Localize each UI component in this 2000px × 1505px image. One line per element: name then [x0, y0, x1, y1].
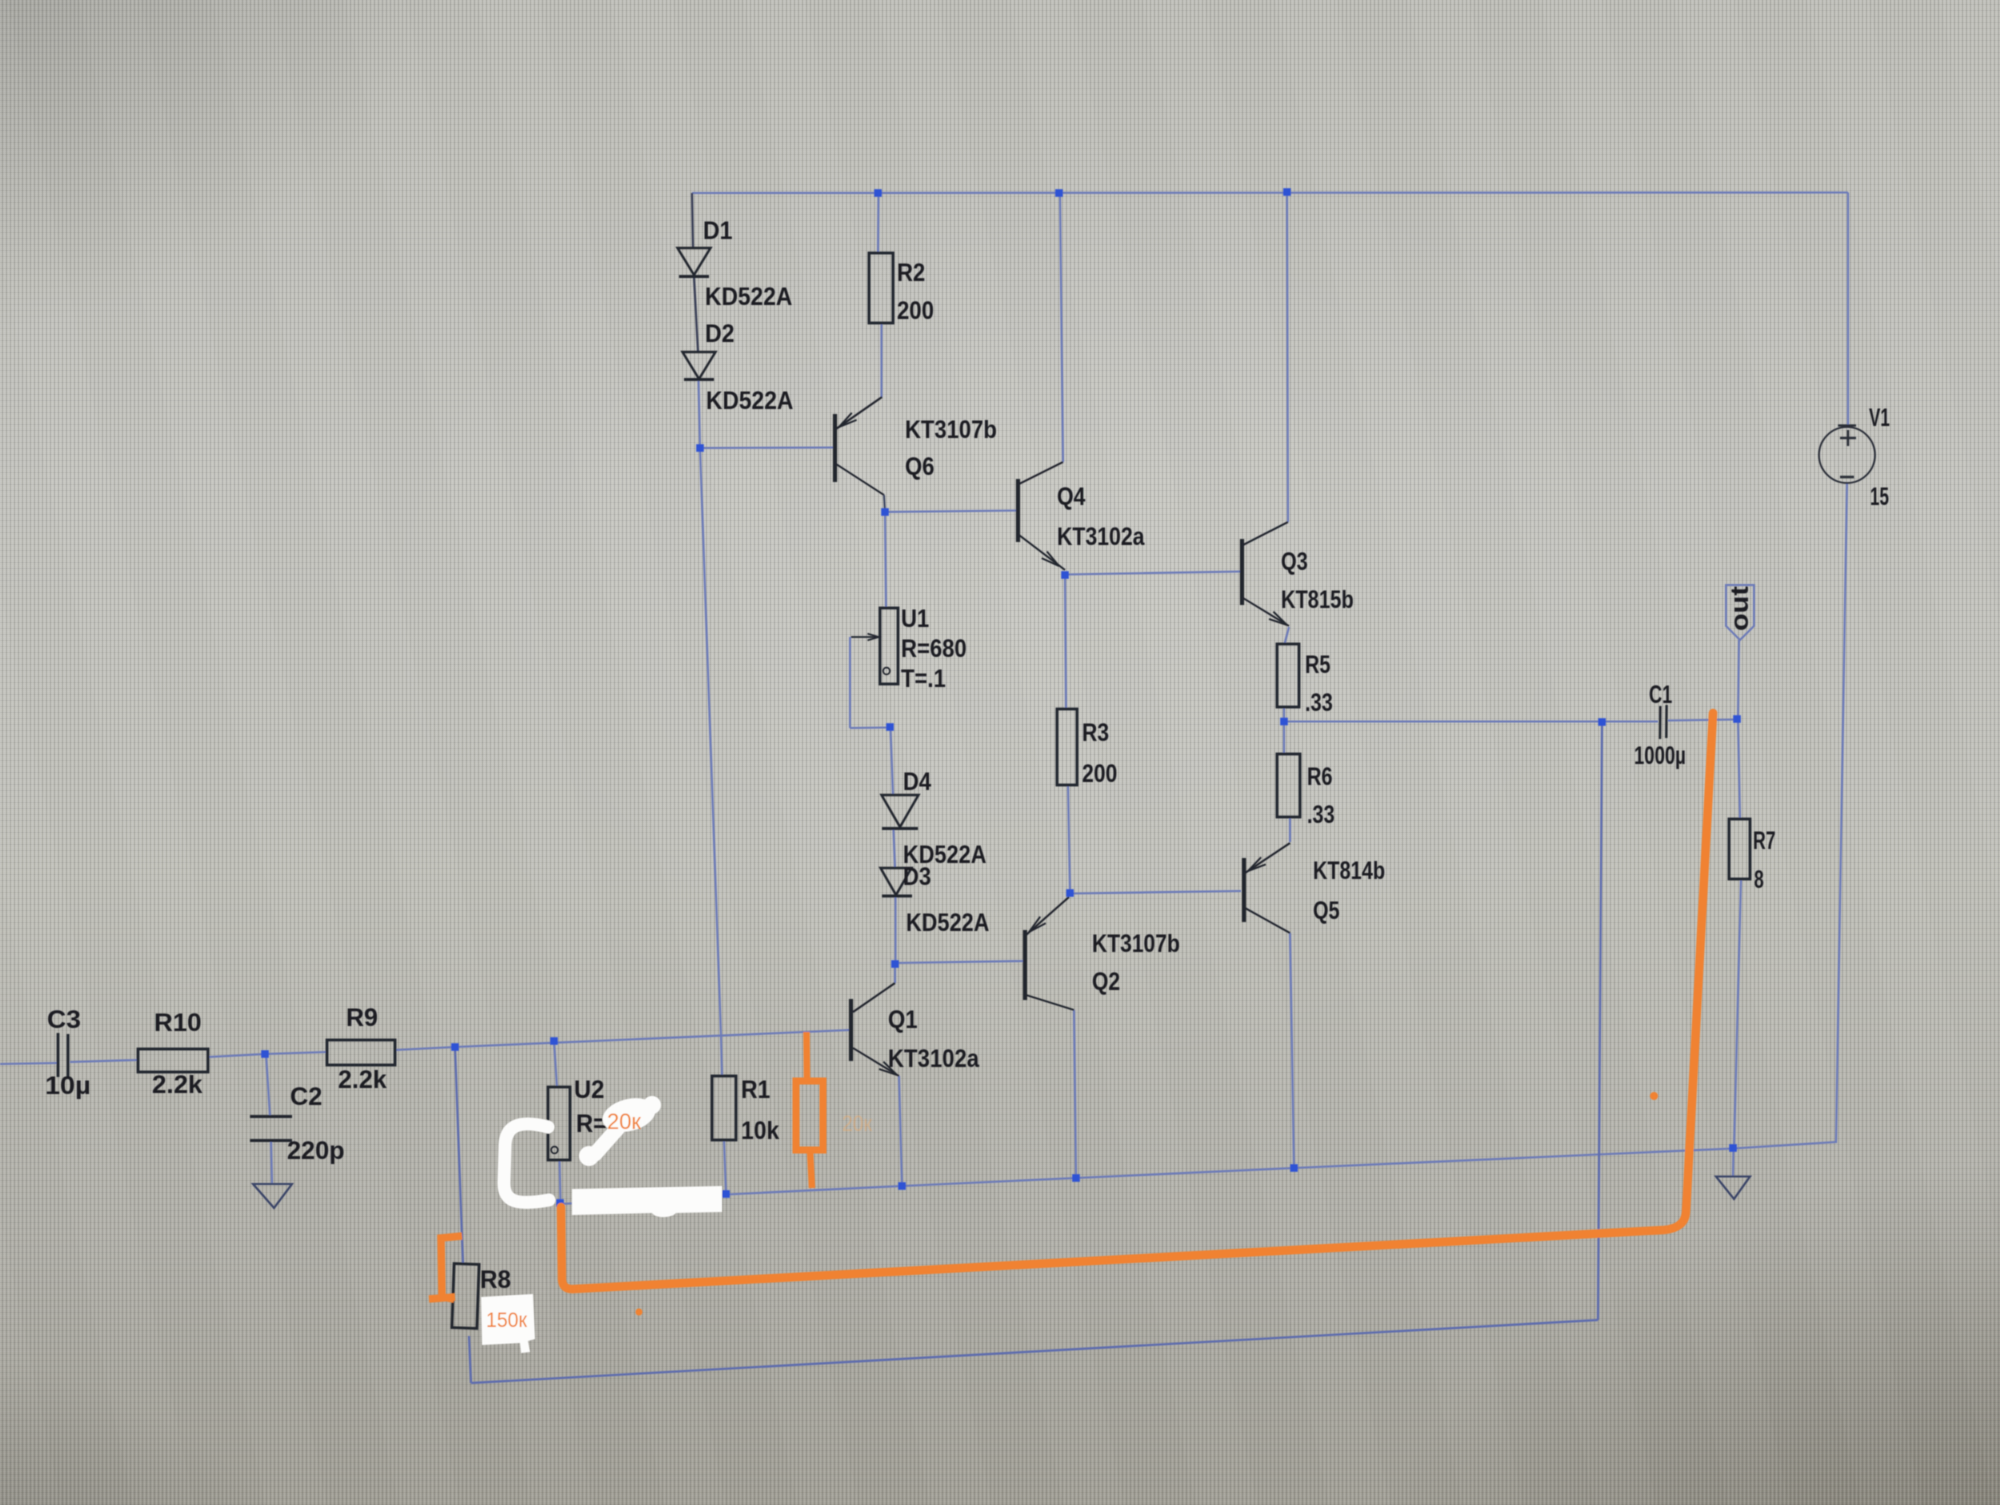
- label C3: [47, 1006, 81, 1034]
- wire Q4 emitter to Q3 base: [1065, 572, 1242, 575]
- wire node to Q5 base: [1070, 891, 1241, 894]
- label R1 value: [741, 1117, 779, 1145]
- resistor R8: [452, 1264, 479, 1329]
- svg-text:C2: C2: [290, 1083, 322, 1111]
- wire Q2 collector drop: [1074, 1010, 1076, 1178]
- wire R6 bottom to Q5 emitter: [1289, 818, 1291, 842]
- svg-text:KD522A: KD522A: [705, 283, 792, 311]
- svg-text:1000µ: 1000µ: [1634, 742, 1686, 770]
- wire R10 to node: [208, 1054, 265, 1057]
- svg-text:D4: D4: [903, 768, 931, 796]
- svg-text:R=680: R=680: [901, 635, 967, 663]
- svg-text:20к: 20к: [607, 1109, 641, 1134]
- wire R2 top lead: [877, 193, 880, 253]
- svg-text:KT3102a: KT3102a: [1057, 523, 1145, 551]
- label R8: [480, 1266, 511, 1294]
- transistor Q4: [1018, 462, 1065, 570]
- svg-text:T=.1: T=.1: [901, 665, 946, 693]
- label Q3: [1281, 548, 1308, 576]
- label R5 value: [1305, 689, 1333, 717]
- label C2: [290, 1083, 322, 1111]
- wire Q3 collector riser: [1287, 193, 1288, 523]
- label D1 value: [705, 283, 792, 311]
- wire out node to R7: [1738, 719, 1740, 819]
- label R6: [1307, 763, 1333, 791]
- diode D4: [882, 795, 919, 829]
- svg-text:C3: C3: [47, 1006, 81, 1034]
- ground at C2: [253, 1184, 292, 1208]
- wire D1-D2 link: [694, 277, 698, 352]
- resistor R10: [138, 1049, 208, 1072]
- capacitor C3: [58, 1033, 68, 1078]
- svg-text:8: 8: [1754, 866, 1764, 894]
- label R7 value: [1754, 866, 1764, 894]
- diode D3: [881, 868, 913, 896]
- wire U1 wiper to node: [850, 727, 890, 730]
- capacitor C1: [1660, 705, 1667, 739]
- label Q6 type: [905, 416, 997, 444]
- svg-text:R=: R=: [576, 1110, 607, 1138]
- white-out blob right of U2: [579, 1093, 661, 1166]
- svg-text:D2: D2: [705, 320, 735, 348]
- wire R1 top lead: [721, 1036, 722, 1076]
- diode D1: [678, 248, 711, 277]
- svg-text:D3: D3: [903, 863, 931, 891]
- transistor Q6: [835, 397, 885, 512]
- wire V1 top lead: [1847, 193, 1849, 427]
- wire D3 to node: [894, 897, 896, 963]
- label D3 value: [906, 909, 989, 937]
- svg-text:R9: R9: [346, 1004, 378, 1032]
- label D3: [903, 863, 931, 891]
- label U1: [901, 605, 929, 633]
- wire node to Q6 base: [700, 446, 835, 449]
- svg-text:D1: D1: [703, 217, 733, 245]
- junction nodes: [261, 188, 1741, 1207]
- label D1: [703, 217, 733, 245]
- svg-text:200: 200: [897, 297, 934, 325]
- svg-text:R6: R6: [1307, 763, 1333, 791]
- wire U1 bottom to D4: [891, 728, 894, 795]
- label R3 value: [1082, 760, 1117, 788]
- svg-text:KT815b: KT815b: [1281, 586, 1354, 614]
- label U2: [574, 1076, 604, 1104]
- wire bottom rail: [560, 1142, 1836, 1204]
- svg-text:KT3102a: KT3102a: [888, 1045, 980, 1073]
- label Q4: [1057, 483, 1085, 511]
- label Q2 type: [1092, 930, 1180, 958]
- transistor Q5: [1244, 843, 1290, 933]
- resistor R1: [712, 1076, 736, 1140]
- wire R9 to node: [395, 1047, 455, 1050]
- label R5: [1305, 651, 1331, 679]
- svg-text:R10: R10: [154, 1009, 202, 1037]
- wire output node to C1: [1284, 720, 1658, 722]
- label C3 value: [45, 1072, 91, 1100]
- ground at output: [1716, 1177, 1750, 1200]
- wire Q1 collector riser: [894, 965, 896, 983]
- wire Q6 collector node down to U1: [885, 512, 886, 608]
- label Q2: [1092, 968, 1120, 996]
- transistor Q3: [1242, 522, 1289, 626]
- wire C2 top lead: [266, 1054, 270, 1116]
- orange dot small: [636, 1309, 643, 1316]
- label Q1 type: [888, 1045, 980, 1073]
- label R6 value: [1307, 801, 1335, 829]
- label R1: [741, 1076, 770, 1104]
- svg-text:R3: R3: [1082, 719, 1109, 747]
- label Q1: [888, 1006, 918, 1034]
- orange text 150k at R8: [486, 1309, 528, 1332]
- wire feedback drop from C1: [1598, 722, 1602, 1320]
- label Q5: [1313, 897, 1340, 925]
- label R7: [1753, 827, 1776, 855]
- label Q3 type: [1281, 586, 1354, 614]
- svg-text:10k: 10k: [741, 1117, 779, 1145]
- svg-text:Q1: Q1: [888, 1006, 918, 1034]
- label R3: [1082, 719, 1109, 747]
- transistor Q2: [1025, 897, 1074, 1010]
- svg-text:U1: U1: [901, 605, 929, 633]
- white-out patch under 150k: [481, 1294, 535, 1353]
- wire node to R9: [265, 1052, 327, 1054]
- orange text 20k at U2: [607, 1109, 641, 1134]
- svg-text:.33: .33: [1307, 801, 1335, 829]
- svg-text:U2: U2: [574, 1076, 604, 1104]
- wire D1 anode lead: [692, 193, 693, 248]
- wire Q6 emitter to R2: [880, 323, 882, 397]
- svg-text:200: 200: [1082, 760, 1117, 788]
- wire Q1 emitter drop: [899, 1076, 902, 1186]
- transistor Q1: [851, 983, 899, 1076]
- label Q5 type: [1313, 857, 1385, 885]
- wire C3 to R10: [70, 1060, 138, 1062]
- svg-text:10µ: 10µ: [45, 1072, 91, 1100]
- svg-text:.33: .33: [1305, 689, 1333, 717]
- orange bracket at R8: [429, 1236, 462, 1299]
- svg-text:2.2k: 2.2k: [152, 1071, 203, 1099]
- svg-text:R5: R5: [1305, 651, 1331, 679]
- svg-text:R2: R2: [897, 259, 925, 287]
- svg-text:V1: V1: [1869, 404, 1890, 432]
- svg-text:20к: 20к: [842, 1111, 872, 1136]
- label C1 value: [1634, 742, 1686, 770]
- label Q6: [905, 453, 934, 481]
- resistor R6: [1277, 754, 1300, 817]
- potentiometer U2: [548, 1087, 570, 1160]
- wire top supply rail: [692, 191, 1848, 194]
- svg-text:R8: R8: [480, 1266, 511, 1294]
- wire U1 wiper vertical: [849, 637, 851, 728]
- wire D2 cathode to node: [699, 380, 701, 448]
- wire node to Q2 base: [895, 961, 1025, 963]
- orange dot near C1: [1650, 1092, 1658, 1100]
- wire C1 to out node: [1668, 720, 1737, 721]
- wire feedback bottom run: [471, 1320, 1598, 1383]
- svg-text:out: out: [1726, 585, 1754, 631]
- label R10 value: [152, 1071, 203, 1099]
- label R9: [346, 1004, 378, 1032]
- orange feedback highlight path: [561, 713, 1713, 1289]
- wire U2 bottom lead: [560, 1160, 561, 1203]
- svg-text:KT3107b: KT3107b: [905, 416, 997, 444]
- label Q4 type: [1057, 523, 1145, 551]
- label V1 value: [1870, 483, 1889, 511]
- resistor R5: [1277, 644, 1299, 707]
- wire V1 bottom lead: [1836, 483, 1847, 1143]
- resistor R7: [1729, 819, 1750, 879]
- svg-text:R1: R1: [741, 1076, 770, 1104]
- svg-text:Q2: Q2: [1092, 968, 1120, 996]
- wire R5 bottom lead: [1283, 707, 1285, 722]
- wire input from edge to C3: [0, 1063, 57, 1064]
- svg-text:KD522A: KD522A: [706, 387, 793, 415]
- wire Q6 collector node to Q4 base: [885, 511, 1018, 513]
- wire Q4 emitter down to R3: [1065, 575, 1066, 709]
- svg-text:Q4: Q4: [1057, 483, 1085, 511]
- white-out bracket left of U2: [504, 1124, 549, 1202]
- wire node to Q1 base: [455, 1030, 850, 1047]
- resistor R9: [327, 1040, 395, 1065]
- voltage source V1: [1819, 426, 1875, 484]
- svg-text:KD522A: KD522A: [906, 909, 989, 937]
- wire feedback to R8 bottom: [469, 1336, 471, 1383]
- wire U2 top lead: [554, 1041, 557, 1088]
- wire rail to V1 return: [1835, 1142, 1837, 1143]
- svg-text:2.2k: 2.2k: [338, 1066, 387, 1094]
- wire C2 bottom lead: [271, 1141, 272, 1184]
- wire R1 bottom lead: [724, 1140, 726, 1193]
- label D2: [705, 320, 735, 348]
- wire R3 bottom lead: [1068, 785, 1070, 892]
- label R9 value: [338, 1066, 387, 1094]
- wire Q3 emitter to R5: [1285, 627, 1290, 644]
- label D2 value: [706, 387, 793, 415]
- wire Q5 collector drop: [1290, 933, 1294, 1168]
- wire R7 bottom to rail: [1734, 879, 1741, 1148]
- svg-text:Q6: Q6: [905, 453, 934, 481]
- wire out flag stem: [1738, 640, 1739, 719]
- label D4 value: [903, 841, 986, 869]
- label V1: [1869, 404, 1890, 432]
- out net flag: [1726, 585, 1754, 640]
- capacitor C2: [250, 1117, 292, 1141]
- label C2 value: [287, 1137, 345, 1165]
- svg-text:C1: C1: [1649, 681, 1672, 709]
- label U2 R=: [576, 1110, 607, 1138]
- wire R6 top lead: [1283, 722, 1285, 754]
- svg-text:KT814b: KT814b: [1313, 857, 1385, 885]
- svg-text:220p: 220p: [287, 1137, 345, 1165]
- wire R8 top lead to input node: [455, 1047, 463, 1264]
- label U1 value: [901, 635, 967, 663]
- label R2: [897, 259, 925, 287]
- wire D4 to D3: [894, 830, 896, 868]
- diode D2: [683, 352, 716, 380]
- wire ground stem right: [1732, 1148, 1735, 1176]
- label C1: [1649, 681, 1672, 709]
- resistor R2: [869, 253, 893, 323]
- svg-text:15: 15: [1870, 483, 1889, 511]
- potentiometer U1: [851, 608, 898, 684]
- label D4: [903, 768, 931, 796]
- svg-text:Q5: Q5: [1313, 897, 1340, 925]
- wire Q4 collector riser: [1060, 193, 1063, 462]
- label R2 value: [897, 297, 934, 325]
- svg-text:KT3107b: KT3107b: [1092, 930, 1180, 958]
- label U1 T: [901, 665, 946, 693]
- wire D2 node column to R1: [700, 448, 721, 1036]
- svg-text:R7: R7: [1753, 827, 1776, 855]
- svg-text:150к: 150к: [486, 1309, 528, 1332]
- orange value 30k faded: [842, 1111, 872, 1136]
- orange resistor annotation: [796, 1032, 823, 1188]
- resistor R3: [1057, 709, 1077, 785]
- svg-text:Q3: Q3: [1281, 548, 1308, 576]
- label R10: [154, 1009, 202, 1037]
- white-out bar over rail: [572, 1186, 722, 1217]
